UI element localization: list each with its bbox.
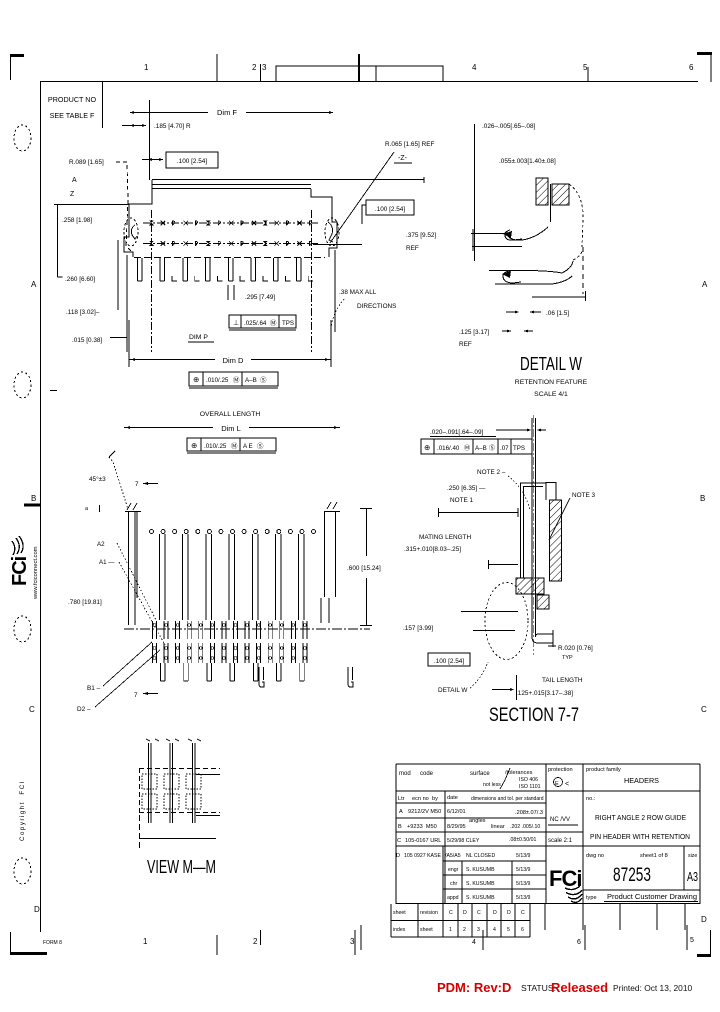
dim .100 boxed	[166, 152, 218, 168]
free state hatched block left	[536, 178, 548, 205]
svg-text:MATING LENGTH: MATING LENGTH	[419, 534, 471, 541]
svg-text:.208±.07/.3: .208±.07/.3	[515, 810, 543, 816]
left guide pin lower	[128, 598, 130, 625]
svg-text:SECTION 7-7: SECTION 7-7	[489, 705, 579, 726]
sheet index bottom line	[391, 936, 530, 938]
free state bottom line	[532, 296, 585, 298]
svg-text:4: 4	[472, 939, 476, 946]
svg-text:E: E	[555, 781, 559, 787]
size divider	[683, 846, 685, 890]
svg-text:B: B	[700, 494, 705, 503]
right guide pin body	[335, 512, 337, 597]
svg-text:surface: surface	[470, 771, 490, 777]
svg-text:dwg no: dwg no	[586, 853, 604, 859]
svg-text:C: C	[397, 838, 401, 844]
svg-text:B1 –: B1 –	[87, 685, 101, 692]
left guide pin chamfer hatch	[127, 503, 131, 510]
svg-text:VIEW M—M: VIEW M—M	[147, 857, 216, 877]
top view flange double lines	[152, 184, 311, 186]
revision box on top border	[276, 66, 443, 82]
svg-text:.020–.091[.64–.09]: .020–.091[.64–.09]	[430, 429, 484, 436]
svg-text:-Z-: -Z-	[398, 155, 408, 162]
leader dashed from R.089 down to left latch	[116, 162, 131, 251]
sheet index mid line	[391, 920, 530, 922]
svg-text:NOTE 3: NOTE 3	[572, 492, 596, 499]
svg-text:105 0927 KASE: 105 0927 KASE	[404, 853, 441, 859]
section dim .020 arrows	[527, 429, 531, 432]
svg-text:.125 [3.17]: .125 [3.17]	[459, 329, 489, 336]
svg-text:index: index	[393, 927, 406, 933]
gdt frame dim L	[187, 438, 276, 451]
svg-text:PIN HEADER WITH RETENTION: PIN HEADER WITH RETENTION	[590, 832, 690, 841]
section pin tail bend	[532, 637, 553, 643]
vertical centerline left pin column	[151, 210, 153, 352]
svg-text:not less: not less	[483, 782, 501, 788]
free state lower hook arrow	[502, 271, 511, 278]
corner mark top-right	[697, 52, 712, 55]
svg-text:D: D	[463, 910, 467, 916]
svg-text:ecn no: ecn no	[412, 796, 429, 802]
free state center post line	[550, 184, 552, 222]
dim .193 [4.9] above detail W	[527, 394, 529, 402]
retention foot left	[259, 667, 264, 687]
view mm base line	[139, 838, 216, 840]
detail balloon dotted ellipse	[485, 583, 528, 660]
tail length dim arrow	[492, 689, 512, 691]
zone tick top x588	[587, 67, 589, 81]
FCI logo left margin (rotated)	[9, 536, 31, 586]
svg-text:Ⓜ: Ⓜ	[233, 376, 240, 384]
svg-text:/tolerances: /tolerances	[505, 770, 533, 776]
mating face line	[438, 512, 518, 514]
svg-text:REF: REF	[459, 341, 472, 348]
zone tick top x217	[216, 54, 218, 81]
svg-text:7: 7	[135, 481, 139, 488]
svg-text:2: 2	[252, 63, 257, 72]
title block vertical 546	[545, 764, 547, 904]
svg-text:FORM 8: FORM 8	[43, 940, 62, 946]
free state upper rail top	[471, 233, 505, 235]
svg-text:RIGHT ANGLE 2 ROW GUIDE: RIGHT ANGLE 2 ROW GUIDE	[595, 813, 686, 822]
dim .100 boxed right	[366, 200, 414, 215]
svg-text:.295 [7.49]: .295 [7.49]	[245, 294, 275, 301]
pin symbols two rows	[149, 220, 154, 225]
svg-text:A: A	[702, 280, 708, 289]
mating length tick 2	[488, 564, 518, 566]
svg-text:Z: Z	[70, 191, 75, 198]
svg-text:DETAIL W: DETAIL W	[520, 354, 582, 374]
svg-text:.780 [19.81]: .780 [19.81]	[68, 599, 102, 606]
view mm cavities row2	[142, 794, 157, 809]
top view right latch hook	[328, 222, 333, 242]
product no box	[102, 81, 104, 128]
title block horizontal 861 names	[443, 860, 546, 862]
svg-text:Dim L: Dim L	[221, 424, 241, 433]
svg-text:engr: engr	[448, 867, 459, 873]
svg-text:.055±.003[1.40±.08]: .055±.003[1.40±.08]	[499, 158, 556, 165]
svg-text:105-0167 URL: 105-0167 URL	[405, 838, 441, 844]
view mm dashed body box	[139, 768, 220, 770]
svg-text:5/13/9: 5/13/9	[516, 881, 531, 887]
svg-text:scale 2:1: scale 2:1	[548, 838, 573, 844]
housing right wall hatch	[550, 500, 562, 581]
retention foot right	[348, 667, 353, 687]
sheet index group dividers	[486, 904, 488, 937]
svg-text:.08±0.50/01: .08±0.50/01	[509, 837, 536, 843]
svg-text:REF: REF	[406, 245, 419, 252]
svg-text:Printed: Oct 13, 2010: Printed: Oct 13, 2010	[613, 983, 692, 993]
section dim .020 extension	[496, 429, 527, 431]
svg-text:5/13/9: 5/13/9	[516, 853, 531, 859]
svg-text:.100 [2.54]: .100 [2.54]	[177, 158, 207, 165]
top view dashed body outline	[134, 257, 325, 259]
svg-text:5: 5	[690, 937, 694, 944]
pin row 2 centerline	[143, 243, 318, 245]
svg-text:5: 5	[583, 63, 588, 72]
svg-text:Ⓢ: Ⓢ	[489, 444, 495, 452]
left extension verticals below view	[117, 240, 119, 310]
svg-text:A1 —: A1 —	[99, 559, 115, 566]
leader dotted A1	[119, 562, 165, 645]
title block horizontal 889 names	[443, 888, 546, 890]
svg-text:DIM P: DIM P	[189, 334, 208, 341]
svg-text:A3: A3	[687, 869, 698, 884]
dim .600 extension ticks	[360, 508, 372, 510]
svg-text:1: 1	[449, 927, 452, 933]
svg-text:<: <	[565, 781, 569, 788]
body centerline	[124, 628, 370, 630]
svg-text:angles: angles	[469, 818, 486, 824]
svg-text:.125+.015[3.17–.38]: .125+.015[3.17–.38]	[516, 690, 573, 697]
svg-text:D2 –: D2 –	[77, 706, 91, 713]
svg-text:TYP: TYP	[562, 655, 573, 661]
svg-text:.07: .07	[500, 445, 509, 452]
svg-text:2: 2	[253, 937, 258, 946]
svg-text:87253: 87253	[613, 865, 651, 886]
svg-text:sheet: sheet	[420, 927, 433, 933]
housing top lines	[520, 482, 546, 484]
housing right top	[545, 482, 547, 500]
title block outer borders	[396, 763, 700, 765]
svg-text:⊕: ⊕	[424, 443, 430, 452]
svg-text:Dim D: Dim D	[223, 356, 244, 365]
svg-text:.100 [2.54]: .100 [2.54]	[434, 658, 464, 665]
free state upper rail bottom	[472, 246, 522, 248]
svg-text:.157 [3.99]: .157 [3.99]	[403, 625, 433, 632]
svg-text:SEE TABLE F: SEE TABLE F	[50, 111, 95, 120]
top view right latch ellipse	[325, 218, 339, 246]
view mm pins	[149, 743, 152, 823]
title block vertical 583	[582, 764, 584, 904]
small dim arrows at left tail	[110, 337, 127, 339]
title block horizontal 791	[396, 790, 700, 792]
svg-text:linear: linear	[491, 824, 505, 830]
svg-text:.010/.25: .010/.25	[204, 443, 227, 450]
svg-text:dimensions and tol. per standa: dimensions and tol. per standard	[471, 796, 544, 802]
svg-text:+9233 M50: +9233 M50	[407, 824, 437, 830]
svg-text:Product Customer Drawing: Product Customer Drawing	[607, 892, 697, 901]
gdt frame .025	[229, 315, 296, 328]
svg-text:date: date	[447, 795, 458, 801]
svg-text:code: code	[420, 771, 434, 777]
dim .100 boxed section	[428, 653, 470, 666]
zone ticks bottom	[216, 935, 218, 955]
svg-text:TPS: TPS	[282, 320, 294, 327]
dim D dimension line	[129, 359, 331, 361]
housing lower hatch	[537, 595, 549, 609]
svg-text:.600 [15.24]: .600 [15.24]	[347, 565, 381, 572]
dim .157 tick lines	[461, 611, 518, 613]
pin row 1 centerline	[143, 222, 318, 224]
svg-text:5/29/98 CLEY: 5/29/98 CLEY	[447, 838, 480, 844]
free state lower hook top	[489, 261, 573, 273]
svg-text:D: D	[701, 915, 707, 924]
section pin vertical lines	[531, 418, 533, 637]
svg-text:.010/.25: .010/.25	[206, 377, 229, 384]
svg-text:Ⓢ: Ⓢ	[260, 376, 267, 384]
svg-text:Ⓜ: Ⓜ	[464, 444, 470, 452]
svg-text:TAIL LENGTH: TAIL LENGTH	[542, 677, 583, 684]
free state dashed arc right upper	[569, 184, 583, 247]
title block horizontal 832	[396, 831, 583, 833]
title block horizontal 890 type row	[583, 889, 700, 891]
svg-text:.118 [3.02]–: .118 [3.02]–	[66, 309, 100, 316]
pin balls row	[150, 530, 154, 534]
title block horizontal 875 names	[443, 874, 546, 876]
zone tick left y390	[50, 390, 57, 392]
note 3 leader	[549, 498, 570, 540]
free state hatched block right	[552, 184, 569, 205]
svg-text:Ⓜ: Ⓜ	[270, 319, 277, 327]
small tick dim left	[99, 505, 101, 512]
svg-text:Released: Released	[551, 980, 608, 995]
revision box divider	[375, 66, 377, 82]
svg-text:C: C	[29, 705, 35, 714]
svg-text:Ⓢ: Ⓢ	[257, 442, 264, 450]
svg-text:.258 [1.98]: .258 [1.98]	[62, 217, 92, 224]
svg-text:7: 7	[134, 692, 138, 699]
gdt frame dim D	[189, 372, 278, 386]
dim F dimension line	[130, 112, 333, 114]
svg-text:5/13/9: 5/13/9	[516, 867, 531, 873]
svg-text:no.:: no.:	[586, 796, 596, 802]
svg-text:S. KUSUMB: S. KUSUMB	[466, 881, 495, 887]
svg-text:A–B: A–B	[245, 377, 257, 384]
title block horizontal 846	[396, 845, 700, 847]
svg-text:C: C	[701, 705, 707, 714]
svg-text:4: 4	[472, 63, 477, 72]
svg-text:Dim F: Dim F	[217, 108, 237, 117]
svg-text:C: C	[477, 910, 481, 916]
free state lower hook curl	[503, 271, 521, 283]
chamfer leader dotted	[109, 457, 128, 509]
svg-text:product family: product family	[586, 767, 621, 773]
svg-text:3: 3	[477, 927, 480, 933]
svg-text:FCi: FCi	[9, 556, 31, 586]
svg-text:Ⓜ: Ⓜ	[231, 442, 238, 450]
protection symbols	[554, 778, 563, 787]
svg-text:C: C	[449, 910, 453, 916]
svg-text:.260 [6.60]: .260 [6.60]	[65, 276, 95, 283]
body contact cells row2	[153, 643, 157, 663]
top view left step outline	[124, 180, 152, 257]
svg-text:B: B	[398, 824, 402, 830]
free state dashed arc right lower	[573, 247, 583, 260]
top view tails	[138, 258, 143, 281]
svg-text:C: C	[521, 910, 525, 916]
svg-text:revision: revision	[420, 910, 438, 916]
svg-text:HEADERS: HEADERS	[624, 776, 659, 785]
svg-text:Ltr: Ltr	[398, 796, 405, 802]
svg-text:by: by	[432, 796, 438, 802]
svg-text:/A5/A5: /A5/A5	[445, 853, 461, 859]
view mm cavities row1	[142, 774, 157, 789]
leader from R.065 to right latch	[330, 152, 394, 243]
dim L dimension line	[124, 427, 340, 429]
svg-text:SCALE 4/1: SCALE 4/1	[534, 391, 568, 398]
view mm base left dash	[139, 815, 141, 848]
svg-text:S. KUSUMB: S. KUSUMB	[466, 895, 495, 901]
left guide pin cap	[125, 511, 141, 513]
surface check symbol	[500, 768, 510, 789]
svg-text:.375 [9.52]: .375 [9.52]	[406, 232, 436, 239]
top view left latch hook	[131, 225, 137, 239]
svg-text:DIRECTIONS: DIRECTIONS	[357, 303, 396, 310]
vertical centerline right pin column	[311, 210, 313, 352]
svg-text:.315+.010[8.03–.25]: .315+.010[8.03–.25]	[404, 546, 461, 553]
right extension vertical x335	[334, 250, 336, 332]
svg-text:6: 6	[689, 63, 694, 72]
svg-text:NL CLOSED: NL CLOSED	[466, 853, 495, 859]
revision box divider thick	[358, 54, 360, 82]
right guide pin lower	[320, 598, 322, 623]
svg-text:4: 4	[493, 927, 496, 933]
svg-text:NOTE 2 –: NOTE 2 –	[477, 469, 506, 476]
sheet border left	[40, 81, 42, 932]
title block vertical 445	[444, 791, 446, 904]
svg-text:PRODUCT NO: PRODUCT NO	[48, 95, 97, 104]
svg-text:PDM: Rev:D: PDM: Rev:D	[437, 980, 511, 995]
svg-text:DETAIL W: DETAIL W	[438, 687, 468, 694]
svg-text:6: 6	[521, 927, 524, 933]
svg-text:.026–.005[.65–.08]: .026–.005[.65–.08]	[482, 123, 536, 130]
dim .260 vertical line	[57, 204, 59, 277]
dim F text	[208, 104, 246, 116]
dim .185 extension line	[149, 100, 151, 180]
svg-text:R.089 [1.65]: R.089 [1.65]	[69, 159, 104, 166]
svg-text:5/13/9: 5/13/9	[516, 895, 531, 901]
svg-text:.202 .005/.10: .202 .005/.10	[510, 824, 540, 830]
svg-text:ISO 1101: ISO 1101	[519, 784, 541, 790]
R.020 callout	[548, 645, 556, 647]
svg-text:⊕: ⊕	[193, 375, 199, 384]
title block horizontal 818	[396, 817, 546, 819]
svg-text:A: A	[31, 280, 37, 289]
svg-text:.015 [0.38]: .015 [0.38]	[72, 337, 102, 344]
svg-text:.250 [6.35] —: .250 [6.35] —	[447, 485, 486, 492]
section gdt frame	[421, 439, 532, 454]
body contact cells row1	[153, 621, 157, 639]
svg-text:ISO 406: ISO 406	[519, 777, 538, 783]
svg-text:D: D	[493, 910, 497, 916]
svg-text:A: A	[399, 809, 403, 815]
dim D extension verticals	[128, 320, 130, 367]
fold mark left border	[24, 504, 40, 507]
note leader dotted	[331, 299, 344, 328]
svg-text:D: D	[396, 853, 400, 859]
svg-text:A: A	[72, 177, 77, 184]
svg-text:sheet1 of 8: sheet1 of 8	[640, 853, 668, 859]
svg-text:R.065 [1.65] REF: R.065 [1.65] REF	[385, 141, 434, 148]
view mm pin top ticks	[146, 739, 150, 741]
svg-text:3: 3	[262, 63, 267, 72]
svg-text:D: D	[507, 910, 511, 916]
right guide pin chamfer hatch	[327, 502, 331, 509]
corner mark bottom-right	[697, 954, 711, 957]
svg-text:TPS: TPS	[513, 445, 525, 452]
svg-text:9212/2V M50: 9212/2V M50	[408, 809, 441, 815]
top view flange top line	[152, 179, 424, 181]
view mm right stubs	[196, 774, 220, 776]
flange line end tick	[423, 177, 425, 183]
corner mark top-left	[10, 54, 24, 57]
free state right dashed vertical	[582, 247, 584, 294]
leader B1	[103, 642, 152, 686]
svg-text:6/12/01: 6/12/01	[447, 809, 466, 815]
dim .100 arrows	[142, 159, 163, 161]
svg-text:type: type	[586, 895, 597, 901]
free state dim .06 arrows	[506, 311, 518, 313]
svg-text:www.fciconnect.com: www.fciconnect.com	[33, 546, 39, 600]
svg-text:⊥: ⊥	[233, 320, 239, 327]
svg-text:.025/.64: .025/.64	[244, 320, 267, 327]
svg-text:R.020 [0.76]: R.020 [0.76]	[558, 645, 593, 652]
svg-text:3: 3	[350, 937, 355, 946]
svg-text:OVERALL LENGTH: OVERALL LENGTH	[200, 411, 261, 418]
housing left wall	[520, 483, 522, 578]
svg-text:.06 [1.5]: .06 [1.5]	[546, 310, 569, 317]
leader D2	[95, 650, 160, 707]
sheet border top	[40, 81, 698, 83]
svg-text:sheet: sheet	[393, 910, 406, 916]
section pin centerline	[533, 415, 535, 655]
svg-text:protection: protection	[548, 767, 573, 773]
svg-text:1: 1	[143, 937, 148, 946]
title block horizontal 803 left	[396, 802, 546, 804]
housing shelf hatch	[516, 578, 544, 594]
svg-text:.38 MAX ALL: .38 MAX ALL	[339, 289, 377, 296]
svg-text:NC /VV: NC /VV	[550, 817, 570, 823]
svg-text:D: D	[34, 905, 40, 914]
svg-text:6: 6	[577, 939, 581, 946]
svg-text:8/29/95: 8/29/95	[447, 824, 466, 830]
dim .295 small	[227, 285, 229, 300]
free state upper hook arrow	[503, 231, 512, 238]
svg-text:1: 1	[144, 63, 149, 72]
svg-text:NOTE 1: NOTE 1	[450, 497, 474, 504]
step extension right	[313, 244, 362, 246]
free state upper hook	[507, 227, 548, 240]
top view left latch ellipse	[124, 218, 138, 246]
svg-text:FCi: FCi	[549, 866, 581, 891]
free state upper rail left tick	[472, 229, 474, 251]
left guide pin body	[128, 512, 130, 598]
svg-text:A–B: A–B	[475, 445, 487, 452]
svg-text:45°±3: 45°±3	[89, 475, 106, 483]
svg-text:⊕: ⊕	[191, 441, 197, 450]
title block name col dividers	[442, 846, 444, 904]
sheet index col borders	[390, 904, 392, 937]
